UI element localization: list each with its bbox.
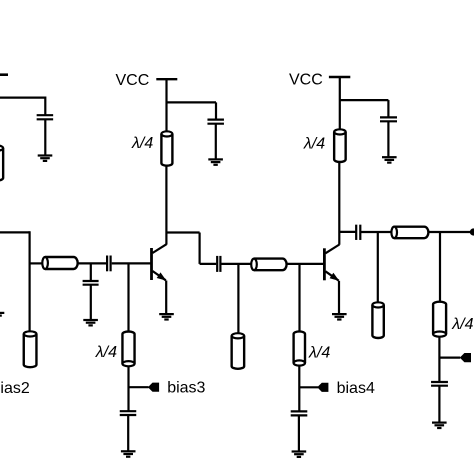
wire — [387, 121, 389, 157]
open stub (stage 2 input) — [232, 333, 245, 369]
svg-text:λ/4: λ/4 — [308, 344, 330, 361]
ground (cut, stage 0 emitter) — [0, 313, 4, 318]
wire to Q2 base — [287, 263, 323, 265]
wire — [298, 415, 300, 451]
wire Q1 collector out — [166, 231, 199, 233]
capacitor (VCC decoupling, stage 2) — [380, 117, 397, 121]
transmission line stub lambda/4 (VCC1) — [161, 131, 172, 165]
wire — [438, 337, 440, 382]
svg-text:λ/4: λ/4 — [131, 135, 153, 152]
wire Q2 collector vertical — [338, 161, 340, 245]
svg-text:VCC: VCC — [116, 72, 150, 89]
svg-text:λ/4: λ/4 — [95, 344, 117, 361]
wire to bias4 tag — [300, 386, 319, 388]
wire — [127, 366, 129, 411]
ground — [83, 320, 98, 325]
power rail VCC tick (stage 2) — [329, 76, 350, 78]
ground Q1 emitter — [159, 314, 174, 319]
open stub (stage 1 input) — [24, 331, 37, 367]
wire — [200, 263, 217, 265]
wire VCC branch — [167, 101, 217, 103]
ground — [432, 423, 447, 428]
transmission line stub lambda/4 (cut, stage 0) — [0, 146, 3, 181]
wire Q2 emitter — [338, 281, 340, 314]
capacitor (output bias bypass) — [431, 382, 448, 386]
wire — [387, 100, 389, 117]
svg-text:VCC: VCC — [289, 71, 323, 88]
transmission line TL2 — [251, 259, 286, 271]
bias3 feed tag — [148, 383, 159, 392]
capacitor (VCC decoupling, stage 0) — [37, 115, 54, 119]
wire bias3 branch drop — [127, 263, 129, 333]
svg-text:λ/4: λ/4 — [303, 135, 325, 152]
wire Q1 collector vertical — [165, 165, 167, 245]
transmission line stub lambda/4 (bias4) — [294, 331, 305, 365]
wire collector line from stage 0 — [0, 231, 30, 233]
wire Q1 emitter — [165, 281, 167, 315]
wire VCC down — [339, 77, 341, 131]
wire — [360, 231, 392, 233]
wire — [298, 366, 300, 412]
wire — [78, 262, 106, 264]
wire to bias tag — [439, 357, 460, 359]
wire VCC branch — [340, 99, 389, 101]
ground — [208, 159, 223, 164]
transmission line stub lambda/4 (VCC2) — [334, 129, 346, 162]
power rail VCC tick (cut, stage 0) — [0, 73, 8, 76]
bias4 feed tag — [317, 383, 328, 392]
wire input node drop — [29, 231, 31, 333]
open stub (output) — [372, 302, 383, 338]
capacitor (VCC decoupling, stage 1) — [207, 120, 224, 124]
capacitor (series coupling, stage 1 input) — [107, 256, 111, 272]
ground — [121, 451, 136, 456]
capacitor (bias4 bypass) — [291, 411, 308, 415]
wire VCC down — [165, 79, 167, 133]
ground Q2 emitter — [332, 314, 347, 319]
wire to Q1 base — [112, 262, 151, 264]
wire — [215, 102, 217, 119]
svg-text:λ/4: λ/4 — [451, 316, 473, 333]
ground — [38, 156, 53, 161]
capacitor (shunt to ground) — [83, 281, 99, 285]
wire shunt branch — [90, 263, 92, 281]
wire — [30, 262, 43, 264]
wire — [90, 285, 92, 320]
svg-text:bias4: bias4 — [337, 380, 375, 397]
wire to bias3 tag — [129, 386, 149, 388]
ground — [292, 452, 307, 457]
wire to output — [428, 231, 471, 233]
wire — [44, 119, 46, 155]
transmission line stub lambda/4 (output) — [433, 302, 446, 337]
wire — [127, 415, 129, 451]
capacitor (series coupling, stage 2 input) — [217, 256, 220, 272]
bias feed tag (output, cut) — [460, 353, 471, 362]
capacitor (series coupling, output) — [356, 225, 360, 240]
wire bias4 branch drop — [298, 264, 300, 332]
wire stub drop — [377, 232, 379, 305]
transistor Q1 (NPN) — [152, 244, 167, 280]
wire corner down — [199, 233, 201, 264]
wire output bias drop — [439, 231, 441, 304]
wire — [215, 124, 217, 160]
transistor Q2 (NPN) — [324, 245, 339, 281]
transmission line TL1 — [42, 257, 77, 269]
wire VCC branch (stage 0) — [0, 96, 45, 98]
transmission line TL3 — [391, 227, 428, 239]
output node dot — [470, 228, 474, 235]
ground — [382, 157, 397, 162]
transmission line stub lambda/4 (bias3) — [122, 331, 134, 366]
svg-text:bias2: bias2 — [0, 380, 30, 397]
wire — [221, 263, 252, 265]
wire — [438, 386, 440, 423]
wire stub drop — [237, 264, 239, 335]
capacitor (bias3 bypass) — [120, 411, 137, 415]
svg-text:bias3: bias3 — [167, 380, 205, 397]
wire — [44, 97, 46, 116]
wire Q2 collector out — [339, 231, 356, 233]
power rail VCC tick (stage 1) — [156, 78, 177, 80]
